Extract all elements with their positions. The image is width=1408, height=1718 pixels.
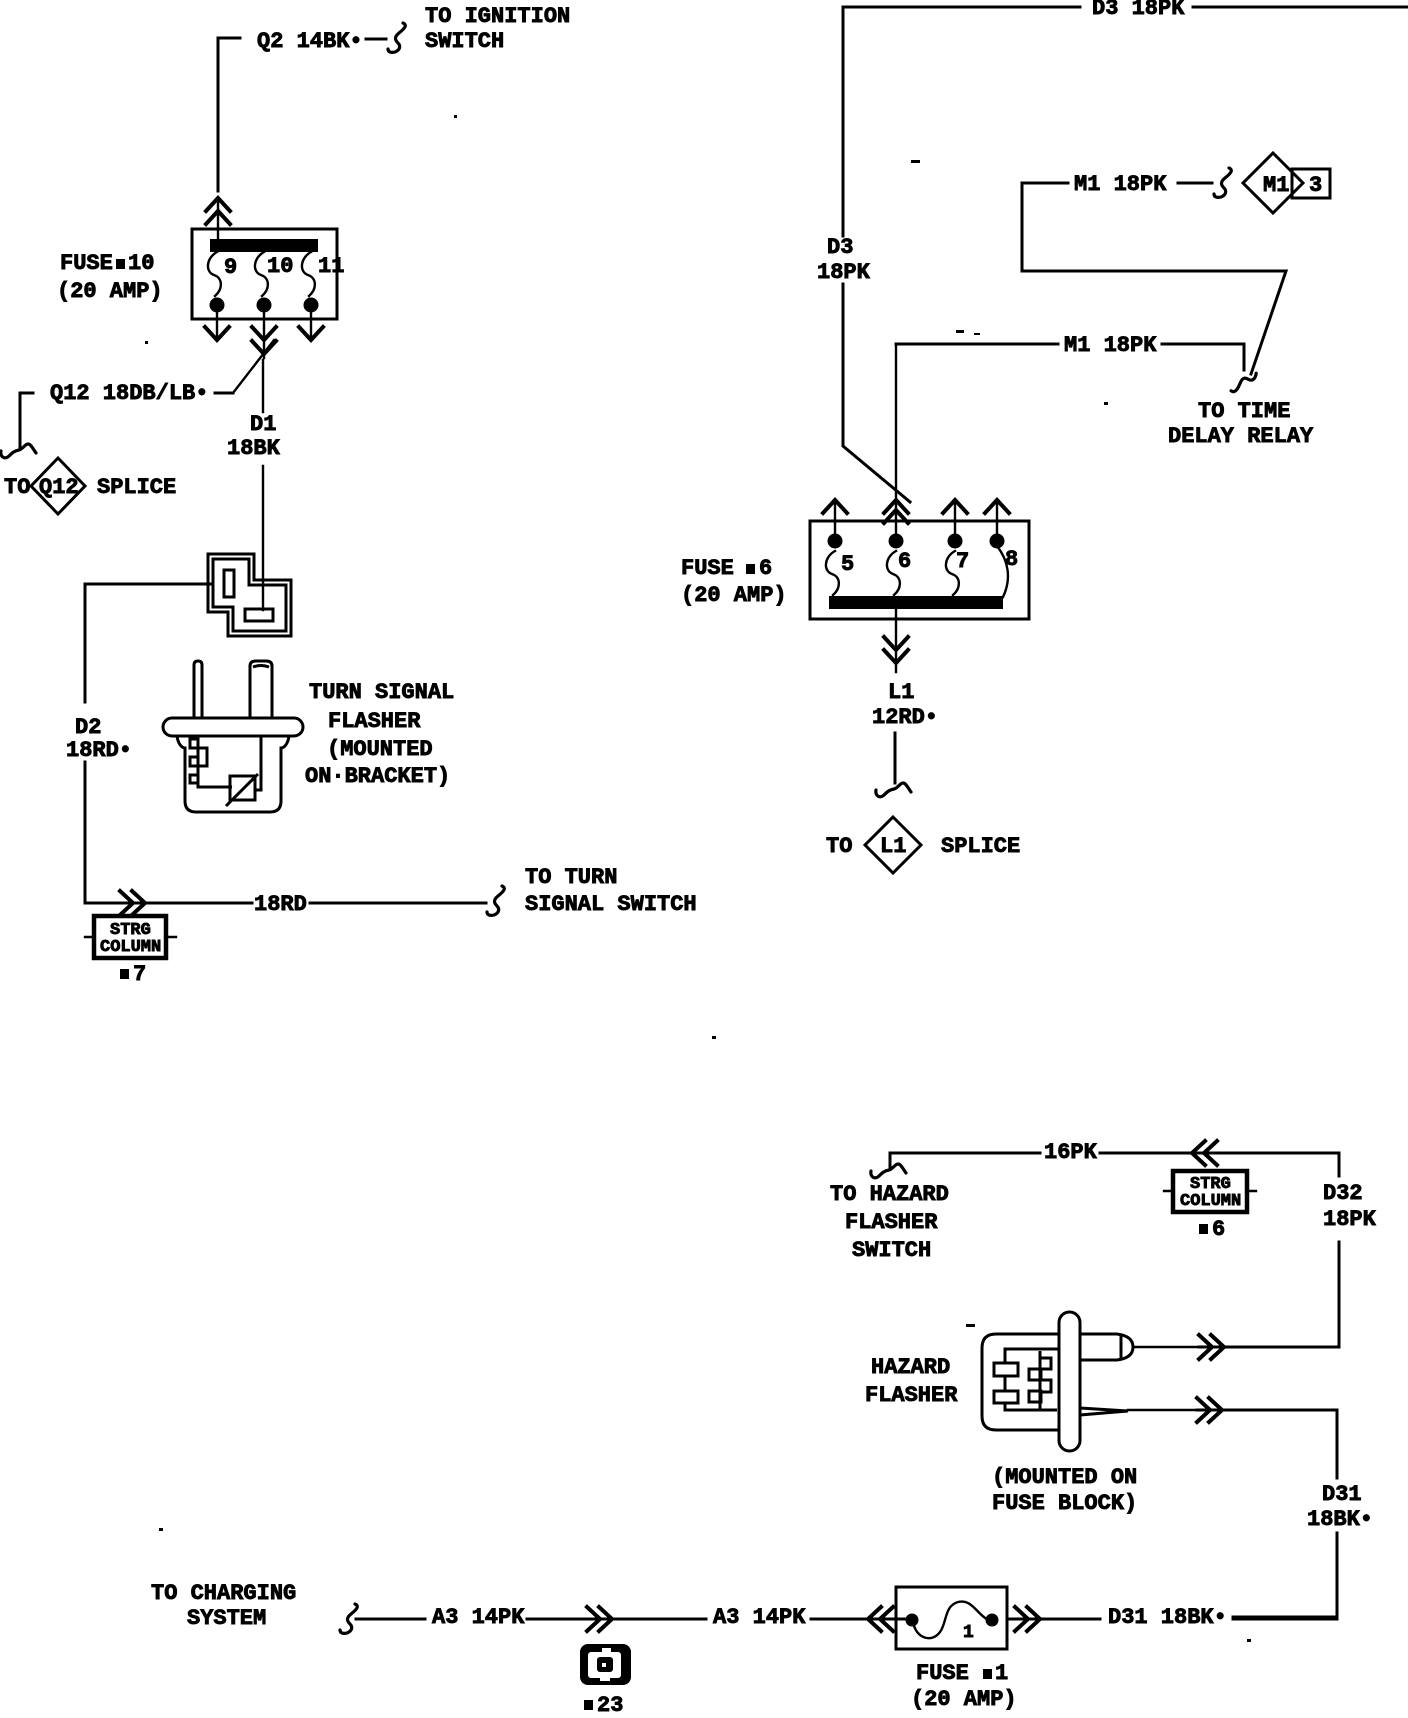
svg-text:FUSE BLOCK): FUSE BLOCK) xyxy=(992,1491,1137,1516)
svg-text:Q12: Q12 xyxy=(39,475,79,500)
svg-text:18PK: 18PK xyxy=(817,260,871,285)
svg-text:TO: TO xyxy=(826,834,852,859)
svg-text:18RD•: 18RD• xyxy=(66,738,132,763)
svg-text:16PK: 16PK xyxy=(1044,1140,1098,1165)
svg-text:(MOUNTED ON: (MOUNTED ON xyxy=(992,1465,1137,1490)
svg-text:SWITCH: SWITCH xyxy=(425,29,504,54)
svg-text:6: 6 xyxy=(898,549,911,574)
svg-text:FUSE: FUSE xyxy=(681,556,734,581)
svg-text:TURN SIGNAL: TURN SIGNAL xyxy=(309,680,454,705)
svg-text:M1 18PK: M1 18PK xyxy=(1064,333,1157,358)
svg-text:FLASHER: FLASHER xyxy=(865,1383,958,1408)
svg-text:5: 5 xyxy=(841,552,854,577)
svg-text:18PK: 18PK xyxy=(1323,1207,1377,1232)
svg-text:TO CHARGING: TO CHARGING xyxy=(151,1581,296,1606)
svg-text:TO TIME: TO TIME xyxy=(1198,399,1290,424)
svg-text:(20 AMP): (20 AMP) xyxy=(57,279,163,304)
svg-text:Q12 18DB/LB•: Q12 18DB/LB• xyxy=(50,381,208,406)
svg-text:FLASHER: FLASHER xyxy=(845,1210,938,1235)
svg-text:7: 7 xyxy=(956,549,969,574)
svg-text:7: 7 xyxy=(133,962,146,987)
svg-text:Q2 14BK•: Q2 14BK• xyxy=(257,29,363,54)
svg-text:(MOUNTED: (MOUNTED xyxy=(327,737,433,762)
svg-text:1: 1 xyxy=(995,1661,1008,1686)
svg-text:SPLICE: SPLICE xyxy=(97,475,176,500)
svg-text:9: 9 xyxy=(224,255,237,280)
svg-text:COLUMN: COLUMN xyxy=(100,938,161,957)
svg-text:M1 18PK: M1 18PK xyxy=(1074,172,1167,197)
svg-text:1: 1 xyxy=(963,1623,974,1643)
svg-text:ON·BRACKET): ON·BRACKET) xyxy=(305,764,450,789)
svg-text:D3: D3 xyxy=(827,235,853,260)
svg-text:(20 AMP): (20 AMP) xyxy=(911,1687,1017,1712)
svg-text:(20 AMP): (20 AMP) xyxy=(681,583,787,608)
svg-text:18BK•: 18BK• xyxy=(1307,1507,1373,1532)
svg-text:TO TURN: TO TURN xyxy=(525,865,617,890)
svg-text:18BK: 18BK xyxy=(227,436,281,461)
svg-text:L1: L1 xyxy=(880,834,906,859)
svg-text:M1: M1 xyxy=(1263,173,1289,198)
svg-text:18RD: 18RD xyxy=(254,892,307,917)
svg-text:D32: D32 xyxy=(1323,1181,1363,1206)
svg-text:6: 6 xyxy=(759,556,772,581)
svg-text:SYSTEM: SYSTEM xyxy=(187,1606,266,1631)
svg-text:FUSE: FUSE xyxy=(916,1661,969,1686)
svg-text:11: 11 xyxy=(318,254,344,279)
svg-text:D2: D2 xyxy=(75,715,101,740)
svg-text:TO IGNITION: TO IGNITION xyxy=(425,4,570,29)
svg-text:D1: D1 xyxy=(250,412,276,437)
svg-text:6: 6 xyxy=(1212,1217,1225,1242)
svg-text:SIGNAL SWITCH: SIGNAL SWITCH xyxy=(525,892,697,917)
svg-text:DELAY RELAY: DELAY RELAY xyxy=(1168,424,1314,449)
svg-text:TO: TO xyxy=(4,475,30,500)
svg-text:12RD•: 12RD• xyxy=(872,705,938,730)
svg-text:8: 8 xyxy=(1005,547,1018,572)
svg-text:TO HAZARD: TO HAZARD xyxy=(830,1182,949,1207)
svg-text:FLASHER: FLASHER xyxy=(328,709,421,734)
svg-text:FUSE: FUSE xyxy=(60,251,113,276)
svg-text:COLUMN: COLUMN xyxy=(1180,1192,1241,1211)
svg-text:D31 18BK•: D31 18BK• xyxy=(1108,1605,1227,1630)
svg-text:23: 23 xyxy=(597,1693,623,1718)
svg-text:SWITCH: SWITCH xyxy=(852,1238,931,1263)
svg-text:10: 10 xyxy=(267,254,293,279)
svg-text:HAZARD: HAZARD xyxy=(871,1355,950,1380)
svg-text:D3 18PK: D3 18PK xyxy=(1092,0,1185,21)
svg-text:10: 10 xyxy=(128,251,154,276)
svg-text:A3 14PK: A3 14PK xyxy=(713,1605,806,1630)
svg-text:SPLICE: SPLICE xyxy=(941,834,1020,859)
svg-text:3: 3 xyxy=(1309,173,1322,198)
svg-text:D31: D31 xyxy=(1322,1482,1362,1507)
svg-text:L1: L1 xyxy=(888,680,914,705)
svg-text:A3 14PK: A3 14PK xyxy=(432,1605,525,1630)
